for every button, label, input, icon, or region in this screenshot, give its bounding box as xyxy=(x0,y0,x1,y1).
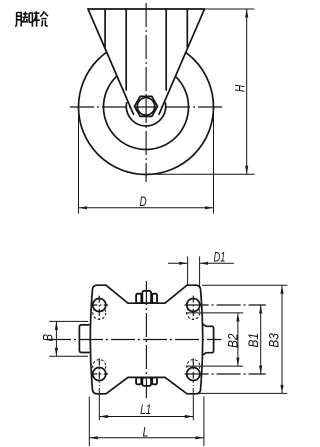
svg-text:B: B xyxy=(39,334,55,341)
centerline vertical front xyxy=(145,3,147,182)
svg-text:L1: L1 xyxy=(140,401,151,417)
svg-text:B2: B2 xyxy=(224,333,240,348)
fork outer left vertical xyxy=(104,9,106,47)
wheel outer circle xyxy=(79,40,214,175)
svg-text:H: H xyxy=(232,84,248,92)
fork inner left vertical xyxy=(125,9,127,90)
svg-text:D1: D1 xyxy=(214,249,226,265)
centerline horizontal front xyxy=(70,106,223,108)
轮: 车 radical xyxy=(33,11,39,26)
axle circle xyxy=(137,98,154,115)
B2 extension lines xyxy=(186,312,243,314)
脚: moon radical xyxy=(15,13,21,27)
fork left slope xyxy=(88,9,134,114)
axle nut hexagon xyxy=(134,96,157,116)
dim D1 xyxy=(168,249,234,286)
dim H xyxy=(150,9,255,174)
dim B2 xyxy=(224,313,240,366)
svg-text:B3: B3 xyxy=(266,333,282,348)
dim D xyxy=(79,110,214,214)
轮: 仑 roof xyxy=(40,11,48,18)
fork right slope xyxy=(159,9,205,114)
fork top edge xyxy=(88,8,205,10)
脚: right 卩 xyxy=(29,13,32,27)
dim B3 xyxy=(197,285,288,393)
fork body white fill xyxy=(88,9,205,114)
top axle nut xyxy=(136,291,157,303)
dim L xyxy=(89,397,204,447)
hub arc xyxy=(126,103,165,126)
hole centerlines xyxy=(90,296,193,386)
bolt holes dashed alternates xyxy=(93,306,200,372)
fork inner right vertical xyxy=(165,9,167,90)
plate outline xyxy=(90,285,202,394)
轮: 仑 bottom xyxy=(41,20,48,26)
svg-text:D: D xyxy=(140,193,147,209)
right wheel boss xyxy=(203,324,213,354)
left wheel boss xyxy=(79,325,89,353)
svg-text:L: L xyxy=(143,423,149,439)
fork outer right vertical xyxy=(186,9,188,47)
centerline vertical bottom view xyxy=(145,281,147,398)
centerline horizontal bottom view xyxy=(47,339,222,341)
bolt holes solid xyxy=(93,299,200,381)
svg-text:B1: B1 xyxy=(245,333,261,348)
wheel middle circle xyxy=(104,65,189,150)
脚: middle 去 xyxy=(22,12,28,22)
bottom axle nut xyxy=(136,378,157,386)
dim B xyxy=(39,321,88,356)
dim L1 xyxy=(99,388,193,420)
B1 extension centerlines xyxy=(185,305,266,374)
title text 脚轮 (drawn strokes) xyxy=(15,11,48,27)
dim B1 xyxy=(245,305,262,374)
